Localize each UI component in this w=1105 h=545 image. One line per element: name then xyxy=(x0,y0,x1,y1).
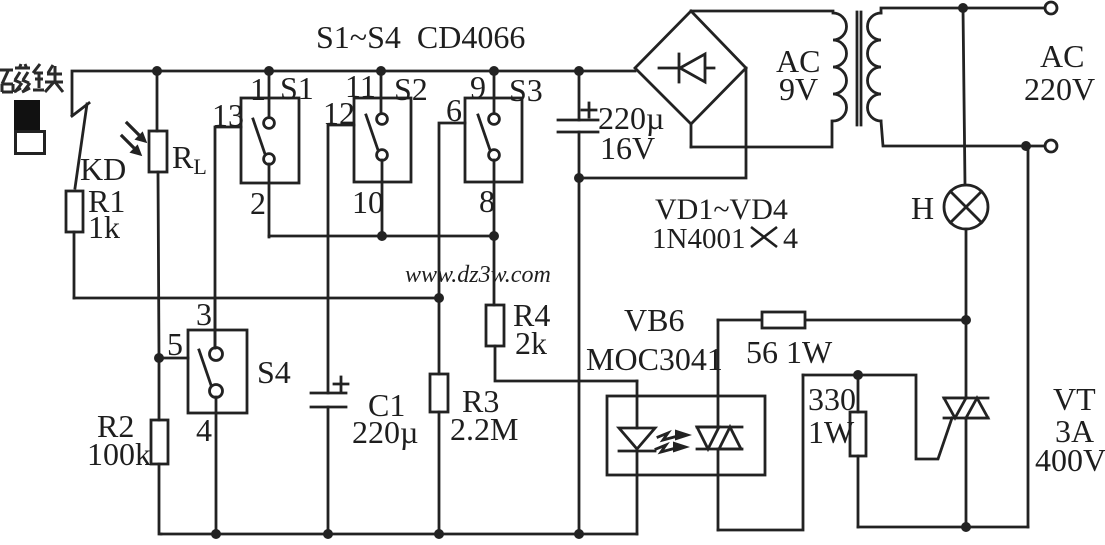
wire pin6 control to R3 xyxy=(439,123,465,374)
node top rail at RL xyxy=(152,66,162,76)
svg-text:1N4001: 1N4001 xyxy=(652,223,745,255)
node bottom R3 xyxy=(434,529,444,539)
svg-text:1W: 1W xyxy=(808,414,855,450)
wire gate net xyxy=(803,375,952,459)
resistor 330 1W xyxy=(850,375,866,527)
node gate drive xyxy=(961,315,971,325)
node pin6/R3/KD xyxy=(434,293,444,303)
svg-text:8: 8 xyxy=(479,183,495,219)
svg-text:S1~S4 CD4066: S1~S4 CD4066 xyxy=(316,19,525,55)
node top rail pin9 xyxy=(489,66,499,76)
node top rail pin11 xyxy=(376,66,386,76)
resistor R2 xyxy=(151,420,168,534)
svg-text:4: 4 xyxy=(783,222,798,255)
wire pin13 control xyxy=(215,127,241,348)
transformer T xyxy=(691,8,1044,147)
svg-text:6: 6 xyxy=(446,92,462,128)
node pin8 xyxy=(489,231,499,241)
wire top DC+ rail xyxy=(72,71,635,115)
svg-text:1: 1 xyxy=(250,71,266,107)
magnet symbol xyxy=(14,100,45,154)
capacitor C1 xyxy=(311,377,348,534)
node AC top xyxy=(958,3,968,13)
svg-text:KD: KD xyxy=(80,151,126,187)
wire AC right side down xyxy=(1026,146,1028,527)
analog switch S1 xyxy=(241,71,299,237)
wire node to R2 xyxy=(158,358,161,420)
svg-text:400V: 400V xyxy=(1035,442,1105,478)
wire DC- rail xyxy=(579,68,746,178)
node pin10 xyxy=(377,231,387,241)
switch KD (reed) xyxy=(72,103,89,188)
terminal AC top xyxy=(1045,2,1057,14)
svg-text:2k: 2k xyxy=(515,325,547,361)
svg-text:S4: S4 xyxy=(257,354,291,390)
svg-text:100k: 100k xyxy=(87,436,151,472)
svg-text:2: 2 xyxy=(250,185,266,221)
optocoupler VB6 box xyxy=(607,396,765,475)
svg-text:220µ: 220µ xyxy=(352,414,418,450)
wire KD bottom to node R3 xyxy=(74,297,439,300)
wire pin2/10/8 bus xyxy=(269,235,494,238)
node C2 minus rail xyxy=(574,173,584,183)
svg-text:S3: S3 xyxy=(509,72,543,108)
node pin5 / R2 xyxy=(154,353,164,363)
analog switch S2 xyxy=(354,71,411,236)
svg-text:16V: 16V xyxy=(600,130,655,166)
wire pin5 stub xyxy=(159,357,188,360)
resistor R4 xyxy=(486,305,637,381)
triac VT xyxy=(944,398,988,527)
photoresistor RL xyxy=(122,71,167,358)
label magnet (hand-drawn CJK strokes) xyxy=(0,64,63,92)
svg-text:2.2M: 2.2M xyxy=(450,411,518,447)
terminal AC bottom xyxy=(1045,140,1057,152)
resistor R1 xyxy=(66,191,83,298)
svg-text:S2: S2 xyxy=(394,71,428,107)
wire bottom right xyxy=(858,526,1028,529)
svg-text:9: 9 xyxy=(470,69,486,105)
node bottom S4 xyxy=(211,529,221,539)
svg-text:220V: 220V xyxy=(1024,71,1095,107)
light arrows VB6 xyxy=(656,430,692,453)
node bottom C1 xyxy=(323,529,333,539)
svg-text:VT: VT xyxy=(1053,381,1096,417)
wire bottom left rail xyxy=(161,533,637,536)
svg-text:330: 330 xyxy=(808,381,856,417)
wire AC bottom to terminal xyxy=(1026,145,1044,148)
svg-text:5: 5 xyxy=(167,326,183,362)
svg-text:VB6: VB6 xyxy=(624,302,684,338)
node bottom C2 xyxy=(574,529,584,539)
svg-text:13: 13 xyxy=(212,97,244,133)
analog switch S4 xyxy=(188,298,247,534)
node top rail pin1 xyxy=(264,66,274,76)
bridge VD1-VD4 xyxy=(635,11,833,147)
svg-text:3: 3 xyxy=(196,296,212,332)
resistor 56 1W xyxy=(718,312,966,328)
svg-text:12: 12 xyxy=(323,95,355,131)
resistor R3 xyxy=(430,374,448,534)
analog switch S3 xyxy=(465,71,522,305)
svg-text:1k: 1k xyxy=(88,209,120,245)
svg-text:H: H xyxy=(911,190,934,226)
wire pin12 control to C1 xyxy=(328,125,354,393)
svg-text:4: 4 xyxy=(196,412,212,448)
svg-text:9V: 9V xyxy=(779,71,818,107)
svg-text:MOC3041: MOC3041 xyxy=(586,341,723,377)
svg-text:AC: AC xyxy=(1040,38,1084,74)
svg-text:56 1W: 56 1W xyxy=(746,334,833,370)
svg-text:S1: S1 xyxy=(280,70,314,106)
node AC bottom xyxy=(1021,141,1031,151)
lamp H xyxy=(944,8,988,398)
node top rail C2 xyxy=(574,66,584,76)
svg-text:VD1~VD4: VD1~VD4 xyxy=(655,193,788,226)
wire opto return xyxy=(718,375,803,530)
phototriac of VB6 xyxy=(697,320,742,530)
svg-text:www.dz3w.com: www.dz3w.com xyxy=(405,262,551,288)
node 330 top xyxy=(853,370,863,380)
node triac bottom xyxy=(961,522,971,532)
svg-text:10: 10 xyxy=(352,184,384,220)
label multiply sign xyxy=(751,227,777,247)
LED of VB6 xyxy=(619,381,655,534)
capacitor C2 220u16V xyxy=(558,71,598,534)
